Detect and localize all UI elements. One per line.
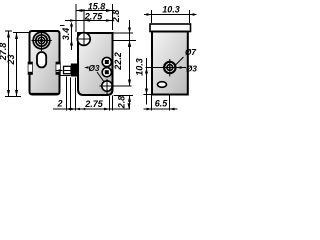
phi7 label xyxy=(176,48,196,65)
dim 2.8 top right xyxy=(111,10,136,47)
right view body xyxy=(152,32,188,95)
left view right notch xyxy=(56,62,61,75)
terminal 2 xyxy=(102,68,111,77)
phi3 label right xyxy=(177,65,198,74)
svg-text:2.75: 2.75 xyxy=(84,12,104,22)
left view target crosshair xyxy=(32,31,52,51)
dim 23 xyxy=(6,33,30,97)
dim 3.4 xyxy=(60,23,73,51)
svg-text:23: 23 xyxy=(6,54,16,65)
plunger pin xyxy=(64,64,78,77)
svg-text:2.8: 2.8 xyxy=(111,10,121,24)
dim 6.5 xyxy=(144,96,178,111)
middle view plunger circle xyxy=(77,32,92,47)
svg-text:2.75: 2.75 xyxy=(84,99,104,109)
svg-text:Ø7: Ø7 xyxy=(185,48,196,57)
svg-text:2: 2 xyxy=(56,99,62,109)
phi3 hole crosshair middle xyxy=(100,79,132,96)
bottom dims middle view xyxy=(53,77,130,111)
dim 10.3 left rotated xyxy=(135,58,153,105)
dim 2.8 bottom right xyxy=(114,96,134,110)
phi3 label middle xyxy=(84,64,104,82)
left view stadium slot xyxy=(37,52,46,67)
plunger leader arrow xyxy=(56,69,64,72)
terminal 1 xyxy=(102,57,111,66)
middle view body xyxy=(78,33,113,95)
svg-text:15.8: 15.8 xyxy=(88,1,106,11)
left view left notch xyxy=(28,62,33,75)
svg-text:2.8: 2.8 xyxy=(117,96,127,110)
dim 15.8 xyxy=(76,1,113,32)
svg-text:10.3: 10.3 xyxy=(162,5,180,15)
right view centerline xyxy=(146,67,182,69)
right view oval slot xyxy=(158,82,167,88)
svg-text:3.4: 3.4 xyxy=(61,28,71,41)
svg-text:22.2: 22.2 xyxy=(113,52,123,71)
projection line xyxy=(61,75,71,77)
dim 2.75 top xyxy=(65,9,113,32)
svg-text:6.5: 6.5 xyxy=(155,99,169,109)
bottom ext line left view xyxy=(5,96,21,98)
dim 27.8 xyxy=(0,31,12,97)
dim 22.2 xyxy=(113,41,131,87)
svg-text:Ø3: Ø3 xyxy=(89,64,100,73)
dim 10.3 top xyxy=(144,5,197,24)
left view body xyxy=(30,31,60,95)
right view cap xyxy=(150,24,191,32)
svg-text:10.3: 10.3 xyxy=(135,58,145,76)
svg-text:Ø3: Ø3 xyxy=(186,65,197,74)
right view target phi7 xyxy=(164,59,175,77)
